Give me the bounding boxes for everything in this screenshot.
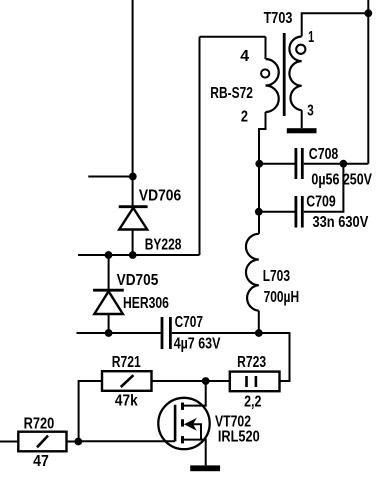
wire: right rail x=368.3 from top edge down to C708 line <box>367 0 369 164</box>
wire: horizontal line y=333 left stub to C707 <box>77 332 161 334</box>
svg-text:2,2: 2,2 <box>244 393 261 410</box>
wire: C707 right lead to L703 node <box>172 332 259 334</box>
svg-text:R721: R721 <box>112 354 141 371</box>
resistor R723 inner bar 1 <box>245 376 248 387</box>
wire: horizontal stub left of node at y=176.5 <box>88 176 133 178</box>
transformer T703 primary polarity dot <box>261 69 269 77</box>
svg-text:R720: R720 <box>24 415 55 432</box>
diode VD705 cathode bar <box>93 289 124 292</box>
wire: R721 left lead and drop to R720 node <box>79 381 102 442</box>
wire: gate wire from node to MOSFET gate bar <box>78 440 175 442</box>
wire: vertical from junction down to VD706 cathode <box>132 177 134 208</box>
diode VD706 cathode bar <box>119 205 148 208</box>
node: junction dot at (205.7,381) <box>202 377 210 385</box>
wire: body connection line down to source <box>191 424 201 439</box>
svg-text:4: 4 <box>240 48 249 65</box>
transformer T703 secondary winding (3 arcs) <box>289 37 301 111</box>
node: junction dot at (258.8,211.7) <box>255 208 263 216</box>
node: junction dot at (78.3,441.5) <box>74 438 82 446</box>
node: junction dot at (343.4,163.7) <box>340 160 348 168</box>
resistor R720 slash symbol <box>37 436 48 448</box>
diode VD705 top lead <box>108 255 110 291</box>
svg-text:RB-S72: RB-S72 <box>210 85 253 102</box>
wire: drain connection and up to node <box>184 381 206 406</box>
resistor R723 inner bar 2 <box>255 376 258 387</box>
wire: transformer pin 4 lead <box>265 37 267 59</box>
svg-text:1: 1 <box>308 29 314 46</box>
svg-text:T703: T703 <box>264 10 293 27</box>
svg-text:4µ7 63V: 4µ7 63V <box>174 336 221 353</box>
transformer T703 secondary polarity dot <box>296 45 305 54</box>
wire: transformer pin 1 lead and top corner <box>302 13 369 36</box>
transistor VT702 gate bar <box>174 405 177 442</box>
node: junction dot at (108.6,333) <box>105 329 113 337</box>
svg-text:C709: C709 <box>306 193 336 210</box>
svg-text:47k: 47k <box>115 393 138 410</box>
transformer T703 core line <box>283 33 286 116</box>
wire: pin 3 lead to ground <box>301 110 303 128</box>
resistor R723 body <box>230 372 280 392</box>
wire: C709 right lead and branch up to C708 node <box>304 164 344 212</box>
svg-text:700µH: 700µH <box>264 289 300 306</box>
svg-text:C707: C707 <box>175 314 203 331</box>
svg-text:C708: C708 <box>309 146 339 163</box>
wire: primary loop top horizontal y=36.7 <box>200 36 266 38</box>
wire: VD706 anode lead down to bus y=255 <box>132 230 134 256</box>
wire: R720 right lead to gate node <box>67 441 79 443</box>
diode VD705 triangle (anode, pointing up) <box>94 291 123 314</box>
node: junction dot at (258.8,333) <box>255 329 263 337</box>
ground bar under T703 pin 3 <box>287 128 317 133</box>
svg-text:VD706: VD706 <box>139 187 182 204</box>
svg-text:VD705: VD705 <box>117 272 159 289</box>
wire: L703 bottom lead <box>258 311 260 333</box>
svg-text:BY228: BY228 <box>145 236 182 253</box>
capacitor C709 left plate <box>294 196 297 228</box>
wire: R721 right lead to drain node <box>152 380 230 382</box>
transistor VT702 circle <box>158 398 209 449</box>
svg-text:2: 2 <box>241 109 248 126</box>
ground bar under VT702 source <box>190 465 220 471</box>
wire: primary loop left vertical x=199.5 <box>199 37 201 255</box>
wire: source connection and down to ground <box>184 440 206 466</box>
resistor R721 body <box>102 371 152 391</box>
inductor L703 (3 arcs) <box>246 234 259 311</box>
wire: C708 right lead to right rail <box>304 163 369 165</box>
node: junction dot at (368.3,13.2) <box>364 9 372 17</box>
svg-text:L703: L703 <box>263 268 291 285</box>
node: junction dot at (132.7,255) <box>129 251 137 259</box>
svg-text:33n 630V: 33n 630V <box>313 214 369 231</box>
svg-text:3: 3 <box>307 103 314 120</box>
wire: C708 left lead <box>259 163 295 165</box>
transistor VT702 channel dash top <box>181 403 184 410</box>
transistor VT702 body arrow <box>184 418 197 431</box>
wire: C709 left lead <box>259 211 295 213</box>
wire: VD705 anode lead down to y=333 <box>108 314 110 333</box>
node: junction dot at (108.5,255) <box>105 251 113 259</box>
wire: from L703 node right and down to R723 right lead <box>259 333 290 381</box>
svg-text:HER306: HER306 <box>123 295 169 312</box>
resistor R721 slash symbol <box>121 375 134 387</box>
capacitor C708 left plate <box>294 148 297 179</box>
svg-text:R723: R723 <box>237 354 266 371</box>
capacitor C707 right plate <box>169 317 172 349</box>
transistor VT702 channel dash middle <box>181 419 184 426</box>
wire: left rail x=259 from pin2 jog down through C708/C709 <box>258 164 260 234</box>
diode VD706 triangle (anode, pointing up) <box>119 208 147 230</box>
node: junction dot at (259.3,163.7) <box>255 160 263 168</box>
capacitor C709 right plate <box>301 196 304 228</box>
wire: left vertical bus x=132.6 from top edge to VD706 junction <box>132 0 134 177</box>
transistor VT702 channel dash bottom <box>181 436 184 443</box>
svg-text:0µ56 250V: 0µ56 250V <box>311 171 372 188</box>
resistor R720 body <box>18 432 66 452</box>
svg-text:IRL520: IRL520 <box>218 429 260 446</box>
wire: R720 left lead from image edge <box>0 441 18 443</box>
node: junction dot at (133,176.5) <box>129 173 137 181</box>
capacitor C707 left plate <box>161 317 164 349</box>
wire: transformer pin 2 lead with jog to rail <box>259 112 266 164</box>
svg-text:47: 47 <box>33 453 49 470</box>
transformer T703 primary winding (2 arcs) <box>266 59 279 112</box>
wire: horizontal bus y=255 <box>78 254 200 256</box>
capacitor C708 right plate <box>301 148 304 179</box>
